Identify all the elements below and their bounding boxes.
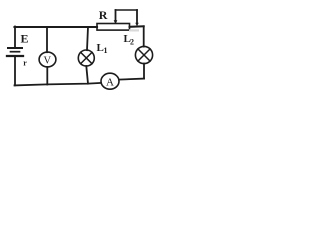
- svg-text:R: R: [99, 8, 108, 22]
- wire lamp L1 branch lower: [86, 66, 88, 84]
- wire right branch lower: [143, 64, 145, 79]
- wire lamp L1 branch upper: [87, 27, 88, 50]
- smudge under wire right of rheostat: [129, 29, 139, 31]
- wire right branch upper: [143, 26, 145, 46]
- battery E plate long bottom: [7, 55, 23, 57]
- lamp L2 cross: [138, 49, 150, 61]
- rheostat R body: [97, 24, 130, 31]
- wire voltmeter branch upper: [46, 27, 48, 52]
- battery E plate long top: [8, 47, 22, 49]
- lamp L2 body: [135, 46, 152, 63]
- wire bottom right run: [119, 79, 144, 80]
- svg-text:V: V: [44, 56, 52, 67]
- rheostat slider arm vertical: [115, 10, 117, 22]
- wire voltmeter branch lower: [46, 67, 48, 85]
- wire left lower (battery negative lead): [14, 57, 16, 85]
- rheostat tap junction arrowhead: [135, 23, 138, 27]
- wire top horizontal: [15, 26, 98, 28]
- rheostat slider arrowhead on box: [114, 20, 118, 24]
- svg-text:r: r: [23, 59, 27, 68]
- ammeter A body: [101, 73, 119, 89]
- battery E plate middle short: [11, 51, 20, 53]
- wire rheostat right to top-right corner: [130, 25, 144, 28]
- voltmeter V body: [39, 52, 56, 67]
- wire bottom left run: [15, 83, 102, 86]
- svg-text:2: 2: [130, 38, 134, 47]
- svg-text:A: A: [106, 76, 114, 88]
- rheostat slider arm horizontal: [116, 9, 138, 11]
- svg-text:E: E: [21, 32, 29, 46]
- lamp L1 body: [78, 50, 94, 66]
- svg-text:1: 1: [104, 46, 108, 55]
- rheostat slider tap wire: [136, 10, 138, 23]
- lamp L1 cross: [81, 52, 92, 63]
- wire left upper (battery positive lead): [14, 27, 16, 48]
